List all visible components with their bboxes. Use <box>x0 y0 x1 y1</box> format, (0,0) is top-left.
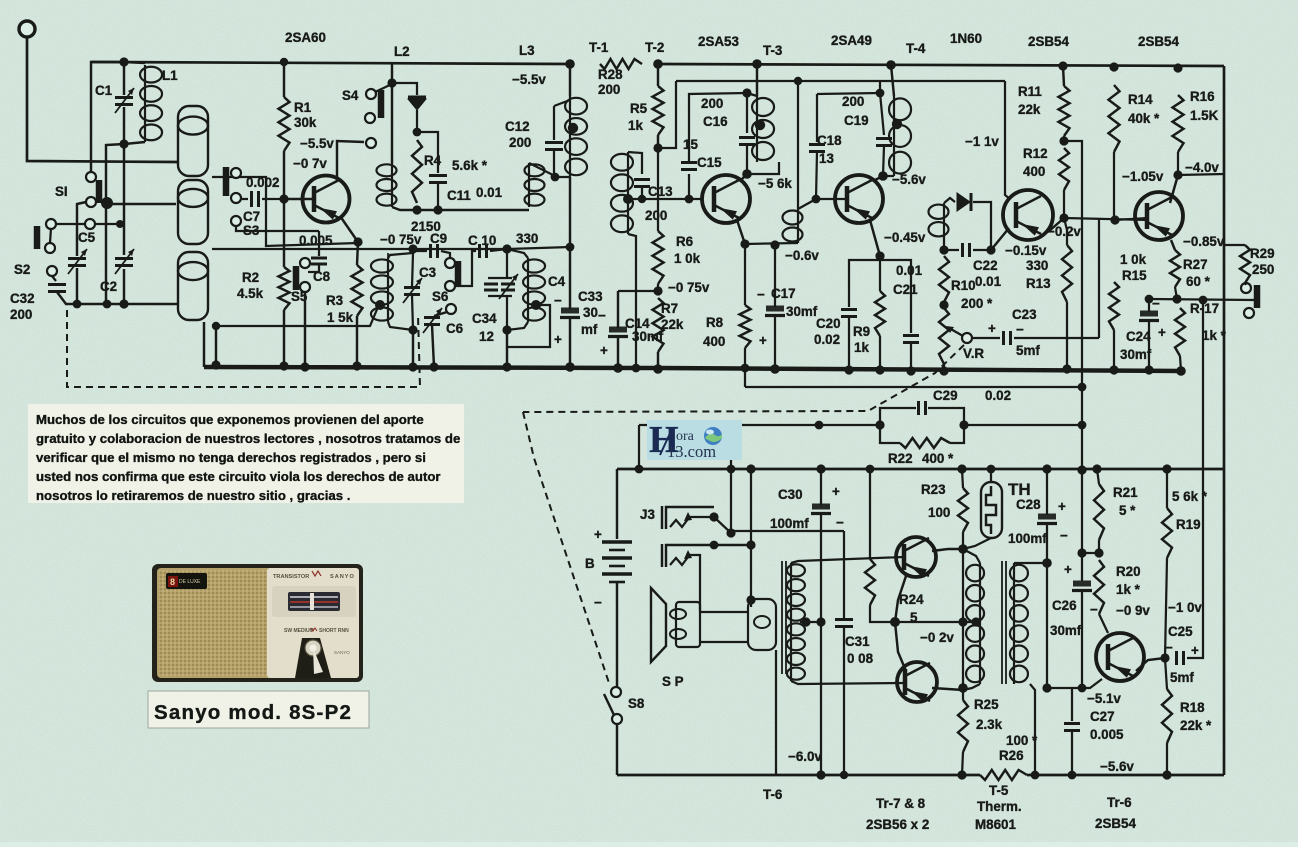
svg-text:SW MEDIUM: SW MEDIUM <box>284 628 314 634</box>
node ground bus T1sec <box>632 364 641 373</box>
wire rail A riser <box>638 425 640 469</box>
node tank2 bottom <box>502 325 511 334</box>
wire tank2 cap rail bottom <box>488 295 512 297</box>
wire emitter row <box>745 243 798 244</box>
wire tank2 cap bottom drop <box>506 296 508 330</box>
wire C26 bottom lead <box>1081 592 1083 688</box>
wire R2 top lead <box>283 199 285 267</box>
wire R24 bottom lead <box>870 605 895 622</box>
svg-text:R29: R29 <box>1250 246 1275 261</box>
wire bus2 stub <box>879 81 881 93</box>
wire jack riser a <box>730 425 732 533</box>
wire R3 top lead <box>357 242 358 265</box>
wire R18 bottom lead <box>1166 743 1168 775</box>
node R5 bottom <box>653 143 662 152</box>
wire C23 row right <box>1014 337 1099 339</box>
capacitor C6 (variable) <box>423 308 442 333</box>
wire Tr6 emitter <box>1136 658 1165 671</box>
wire emitter to driver base <box>1064 218 1147 220</box>
node gang bottom a <box>73 300 82 309</box>
svg-text:30: 30 <box>583 305 598 320</box>
node 2SA49 collector <box>878 171 888 181</box>
wire C5 bottom lead <box>76 268 78 304</box>
inductor T-1 primary <box>565 96 587 177</box>
node C26 bottom <box>1078 684 1087 693</box>
svg-text:T-6: T-6 <box>763 787 782 802</box>
resistor R22 <box>900 438 950 448</box>
svg-text:C16: C16 <box>703 114 728 129</box>
svg-text:Tr-7 & 8: Tr-7 & 8 <box>876 796 926 811</box>
wire S1 row <box>51 223 120 225</box>
svg-text:30k: 30k <box>294 115 317 130</box>
svg-text:−: − <box>1060 528 1068 543</box>
node gang bottom b <box>103 300 112 309</box>
wire C9 to S6 <box>441 251 450 258</box>
svg-text:22k: 22k <box>661 317 684 332</box>
wire diode feed <box>392 83 417 95</box>
wire T5 primary top <box>963 549 980 563</box>
inductor L2 right <box>525 163 545 207</box>
svg-text:+: + <box>1064 562 1072 577</box>
resistor R3 <box>352 265 363 316</box>
node return riser top <box>212 322 220 330</box>
antenna terminal <box>19 21 35 37</box>
wire S8 lever <box>604 694 614 715</box>
node -0.75 node <box>653 286 662 295</box>
svg-text:C29: C29 <box>933 388 958 403</box>
svg-text:2SA49: 2SA49 <box>831 33 872 48</box>
wire L1 bottom lead <box>124 142 145 144</box>
node R11 R12 junction <box>1059 136 1068 145</box>
resistor R19 <box>1162 508 1172 558</box>
svg-text:2SA60: 2SA60 <box>285 30 326 45</box>
wire R5 bottom lead <box>657 135 659 148</box>
wire C12 top <box>554 100 570 106</box>
wire tank top to S1 drop <box>91 62 124 172</box>
svg-text:R14: R14 <box>1128 92 1153 107</box>
svg-text:C25: C25 <box>1168 624 1193 639</box>
wire C23 row left <box>972 337 1000 339</box>
wire battery feed <box>616 469 618 539</box>
node R16 bottom <box>1173 170 1182 179</box>
wire R21 C26 link <box>1082 552 1099 554</box>
wire C22 row right <box>973 249 991 251</box>
wire 2SA60 emitter <box>340 216 358 242</box>
svg-text:C6: C6 <box>446 321 463 336</box>
wire T6 box feed <box>750 600 752 607</box>
resistor R8 <box>740 305 751 348</box>
wire C28 bottom lead <box>1046 525 1048 563</box>
wire R8 AGC line <box>745 386 1082 388</box>
wire 2SA49 emitter lead <box>870 220 880 256</box>
inductor tuning winding W1 <box>178 106 208 176</box>
node R11 top <box>1058 61 1067 70</box>
svg-text:J3: J3 <box>640 507 655 522</box>
svg-text:C31: C31 <box>845 634 870 649</box>
svg-text:0.01: 0.01 <box>896 263 923 278</box>
wire top supply bus <box>91 62 570 64</box>
wire TH top lead <box>990 469 992 482</box>
wire emitter bypass row <box>1149 299 1254 300</box>
wire C7 link <box>241 198 248 200</box>
wire diode to R4 <box>416 110 418 132</box>
wire T6 box bottom drop <box>775 650 777 775</box>
jack contact a <box>1241 283 1251 293</box>
node bottom rail R18 <box>1162 770 1171 779</box>
node bottom rail C31 <box>840 771 848 779</box>
svg-text:4.5k: 4.5k <box>237 286 264 301</box>
wire S1 common down <box>105 204 107 304</box>
wire S6c to C6 <box>434 312 447 316</box>
svg-text:13: 13 <box>819 151 834 166</box>
node ground bus 216 <box>211 360 220 369</box>
wire edge to R29 <box>1224 244 1245 246</box>
wire main ground bus <box>204 367 1181 371</box>
svg-text:C12: C12 <box>505 119 530 134</box>
node 2SA53 emitter <box>740 239 749 248</box>
svg-text:R19: R19 <box>1176 517 1201 532</box>
svg-text:C17: C17 <box>771 286 796 301</box>
pot V.R wiper <box>962 333 972 343</box>
svg-text:200: 200 <box>701 96 723 111</box>
wire C2 bottom lead <box>123 269 125 304</box>
node T5 sec top node <box>1042 558 1052 568</box>
svg-text:C34: C34 <box>472 311 497 326</box>
svg-text:C9: C9 <box>430 231 447 246</box>
text notice background <box>28 404 464 503</box>
node wave-switch wire <box>116 220 124 228</box>
svg-text:S2: S2 <box>14 262 30 277</box>
wire R16 bottom lead <box>1177 152 1179 175</box>
wire C29 top branch <box>880 408 916 425</box>
node vol top <box>939 245 948 254</box>
svg-text:−1.05v: −1.05v <box>1122 169 1164 184</box>
node C25 left <box>1160 653 1169 662</box>
wire C30 top lead <box>820 469 822 505</box>
node ground bus C21 <box>906 366 915 375</box>
wire wiper arm <box>949 328 963 336</box>
wire 2SB54a emitter lead <box>1048 218 1064 232</box>
wire T1 sec bottom <box>628 234 636 368</box>
speaker SP loop b <box>670 629 686 639</box>
node rail A AGC <box>1077 465 1086 474</box>
resistor R13 <box>1062 245 1072 302</box>
wire R24 top feed <box>869 469 871 559</box>
resistor R5 <box>653 86 664 135</box>
wire lower emitter <box>895 622 906 671</box>
svg-text:−: − <box>594 595 602 610</box>
svg-text:1k: 1k <box>854 340 869 355</box>
node ground bus tank2 <box>502 362 511 371</box>
svg-text:2SB54: 2SB54 <box>1138 34 1179 49</box>
resistor R26 <box>980 770 1027 780</box>
node diode out <box>413 128 422 137</box>
node x751 mid <box>746 540 755 549</box>
inductor tuning winding W2 <box>178 180 208 244</box>
wire R8 top lead <box>744 244 746 305</box>
wire C26 top lead <box>1081 553 1083 581</box>
node S1 common <box>101 197 113 209</box>
jack R29 bar <box>1254 285 1261 308</box>
wire antenna lead <box>27 38 178 162</box>
wire C32 bottom <box>57 292 77 304</box>
svg-text:250: 250 <box>1252 262 1274 277</box>
wire C23 riser <box>1098 219 1100 338</box>
node collector top node <box>958 544 968 554</box>
svg-text:+: + <box>988 321 996 336</box>
wire tank1 bottom loop <box>388 322 413 330</box>
svg-text:30mf: 30mf <box>1050 623 1082 638</box>
svg-text:0.02: 0.02 <box>985 388 1011 403</box>
wire bottom rail right <box>1027 774 1224 777</box>
wire tank top drop <box>391 62 393 83</box>
transistor 2SB56 upper <box>896 537 936 578</box>
wire C11 top <box>417 132 438 173</box>
node ground bus C6 <box>429 362 438 371</box>
svg-text:+: + <box>554 332 562 347</box>
wire R22 bottom branch <box>880 425 900 443</box>
capacitor C10 <box>480 244 487 258</box>
node tank1 bottom <box>408 325 417 334</box>
node C29 right <box>959 420 968 429</box>
wire T4 primary feed <box>891 65 894 96</box>
switch S1 contact c <box>46 219 56 229</box>
switch S3 bar <box>223 167 230 196</box>
node rail A R21 <box>1092 464 1101 473</box>
wire C29 out <box>964 424 1082 426</box>
wire ground bus left riser <box>203 322 205 367</box>
capacitor C26 <box>1072 581 1092 591</box>
wire tank2 bottom loop <box>507 322 528 330</box>
svg-text:R2: R2 <box>242 270 259 285</box>
svg-text:+: + <box>832 484 840 499</box>
switch S3 contact c <box>231 216 241 226</box>
wire bracket to box bottom <box>700 641 748 643</box>
wire tank2 top loop <box>507 249 528 258</box>
node T6 tap bus <box>816 617 825 626</box>
wire osc coil tap line <box>212 307 378 326</box>
svg-text:0.002: 0.002 <box>246 175 280 190</box>
wire R3 bottom lead <box>356 316 358 366</box>
node 2SB54a emitter <box>1059 213 1068 222</box>
svg-text:R18: R18 <box>1180 700 1205 715</box>
node C24 top <box>1145 295 1154 304</box>
svg-text:2SB56 x 2: 2SB56 x 2 <box>866 817 929 832</box>
svg-text:−5.1v: −5.1v <box>1087 691 1121 706</box>
wire R9 bottom lead <box>879 336 881 370</box>
svg-text:L2: L2 <box>394 44 410 59</box>
svg-text:−0 7v: −0 7v <box>293 156 327 171</box>
svg-text:5.6k *: 5.6k * <box>452 158 488 173</box>
wire S2 link <box>50 228 51 243</box>
battery B <box>602 540 632 544</box>
wire S3c to C8 row <box>236 226 319 231</box>
wire C1 bottom lead <box>123 107 125 144</box>
svg-text:200: 200 <box>509 135 531 150</box>
wire C19 top lead <box>880 93 884 135</box>
node C29 row mid <box>815 421 824 430</box>
svg-text:100: 100 <box>928 505 950 520</box>
wire C22 row left <box>944 249 959 251</box>
svg-text:60 *: 60 * <box>1186 274 1211 289</box>
inductor T-6 primary <box>787 563 805 681</box>
wire C7 to base <box>262 198 284 200</box>
svg-text:2SA53: 2SA53 <box>698 34 739 49</box>
capacitor C28 <box>1037 514 1057 524</box>
svg-text:R1: R1 <box>294 100 312 115</box>
node pushpull emitter <box>890 617 900 627</box>
wire T5 sec bottom <box>1030 684 1035 775</box>
wire C14 top lead <box>617 291 619 328</box>
wire upper emitter <box>895 573 907 622</box>
wire C12 top lead <box>553 106 555 140</box>
svg-text:SANYO: SANYO <box>334 650 350 655</box>
svg-text:S8: S8 <box>628 696 645 711</box>
node bottom rail T5 <box>1031 771 1040 780</box>
svg-text:C4: C4 <box>548 274 566 289</box>
wire R16 to edge <box>1178 174 1224 175</box>
svg-text:330: 330 <box>1026 258 1048 273</box>
svg-text:R6: R6 <box>676 234 693 249</box>
svg-text:−0.45v: −0.45v <box>884 230 926 245</box>
wire R15 bottom lead <box>1113 330 1115 370</box>
wire T5 sec top <box>1014 562 1047 564</box>
wire R5 top lead <box>657 64 659 86</box>
wire C21 bottom lead <box>910 343 912 371</box>
node T3 sec bus2 <box>794 77 802 85</box>
wire C6 bottom <box>432 325 434 367</box>
inductor tank2 coil <box>523 258 545 322</box>
wire L2 bottom <box>392 207 529 210</box>
wire TH bottom lead <box>963 538 991 549</box>
wire S4a to tank top <box>375 84 392 92</box>
dashed volume link <box>523 345 964 412</box>
svg-text:SHORT RNN: SHORT RNN <box>319 628 349 634</box>
svg-text:C26: C26 <box>1052 598 1077 613</box>
pot V.R arrowhead <box>946 326 954 333</box>
svg-text:gratuito y colaboracion de nue: gratuito y colaboracion de nuestros lect… <box>36 431 460 446</box>
switch S1 contact d <box>85 219 95 229</box>
node ground bus C33 <box>565 362 575 372</box>
svg-text:T-4: T-4 <box>906 41 926 56</box>
wire top supply bus right <box>658 64 1224 66</box>
wire T5 primary bottom <box>963 684 980 690</box>
resistor R1 <box>279 97 290 151</box>
svg-text:1N60: 1N60 <box>950 31 982 46</box>
wire right edge drop <box>1223 66 1226 775</box>
svg-text:22k *: 22k * <box>1180 718 1212 733</box>
caption box Sanyo <box>148 691 369 728</box>
capacitor C27 <box>1064 724 1080 731</box>
resistor R25 <box>958 700 968 752</box>
wire R11 bottom lead <box>1063 136 1065 142</box>
node ground bus R2 <box>279 361 288 370</box>
node C25 feedback top <box>1199 296 1208 305</box>
wire R17 bottom lead <box>1180 356 1181 371</box>
svg-text:R28: R28 <box>598 67 623 82</box>
node R27 R17 junction <box>1172 294 1181 303</box>
node tank2 top <box>502 244 511 253</box>
wire 2SA49 collector lead <box>875 176 883 180</box>
node x751 low <box>746 595 755 604</box>
capacitor C5 (variable) <box>68 249 87 274</box>
node rail A R19 <box>1162 464 1171 473</box>
jack J3 lower frame <box>666 545 751 567</box>
svg-text:Sanyo mod. 8S-P2: Sanyo mod. 8S-P2 <box>154 701 352 724</box>
svg-text:12: 12 <box>479 329 494 344</box>
svg-text:nosotros lo retiraremos de nue: nosotros lo retiraremos de nuestro sitio… <box>36 488 350 503</box>
node tank top feed <box>387 78 396 87</box>
wire det out <box>973 202 991 246</box>
svg-text:B: B <box>585 556 595 571</box>
svg-text:+: + <box>1058 499 1066 514</box>
svg-text:−: − <box>1090 602 1098 617</box>
inductor T-3 primary <box>752 96 774 162</box>
jack J3 lower contact <box>670 557 688 565</box>
svg-text:C5: C5 <box>78 230 96 245</box>
switch S5 contact a <box>300 258 310 268</box>
node AGC join <box>1078 383 1087 392</box>
node ground bus C14 <box>613 363 623 373</box>
svg-text:R12: R12 <box>1023 146 1048 161</box>
wire R10 bottom lead <box>943 364 945 371</box>
node x731 jack <box>726 528 735 537</box>
wire R11 top lead <box>1063 66 1064 86</box>
wire det coil bottom <box>943 238 945 250</box>
node tank bottom b <box>433 205 442 214</box>
inductor L2 left <box>377 163 397 207</box>
capacitor C23 <box>1004 331 1011 345</box>
wire C18 C19 row <box>817 93 880 94</box>
svg-text:−: − <box>836 515 844 530</box>
resistor R10 lower <box>939 308 949 364</box>
speaker SP cone <box>651 588 666 662</box>
svg-text:−: − <box>598 308 606 323</box>
wire C5 column <box>77 202 86 256</box>
svg-text:0 08: 0 08 <box>847 651 874 666</box>
resistor R7 <box>653 298 664 352</box>
node ground bus R8 <box>741 364 750 373</box>
wire Tr6 collector row <box>1047 679 1102 688</box>
svg-text:−0 75v: −0 75v <box>380 232 422 247</box>
wire R18 leads <box>1165 658 1167 689</box>
svg-text:200: 200 <box>842 94 864 109</box>
capacitor C20 <box>841 310 857 317</box>
capacitor C18 <box>809 145 825 152</box>
svg-text:−: − <box>1165 640 1173 655</box>
wire L1 top lead <box>124 62 145 63</box>
wire R1 top lead <box>283 62 285 97</box>
wire C8 top lead <box>318 231 320 256</box>
switch S1 contact b <box>86 197 96 207</box>
switch S3 contact b <box>231 193 241 203</box>
resistor R2 <box>279 267 290 310</box>
node AGC mid join <box>1078 421 1087 430</box>
wire C33 top lead <box>569 247 571 309</box>
svg-text:C33: C33 <box>578 289 603 304</box>
wire C20 bottom lead <box>848 317 850 370</box>
logo hora13 slash <box>660 429 672 455</box>
svg-text:200: 200 <box>645 208 667 223</box>
transformer T-6 core <box>782 561 786 674</box>
node ground bus R17 <box>1176 366 1186 376</box>
node det out <box>986 245 995 254</box>
svg-text:400 *: 400 * <box>922 451 954 466</box>
wire R23 top lead <box>962 469 963 488</box>
node ground bus C20 <box>844 365 853 374</box>
svg-text:100 *: 100 * <box>1006 733 1038 748</box>
resistor R9 <box>875 291 885 336</box>
